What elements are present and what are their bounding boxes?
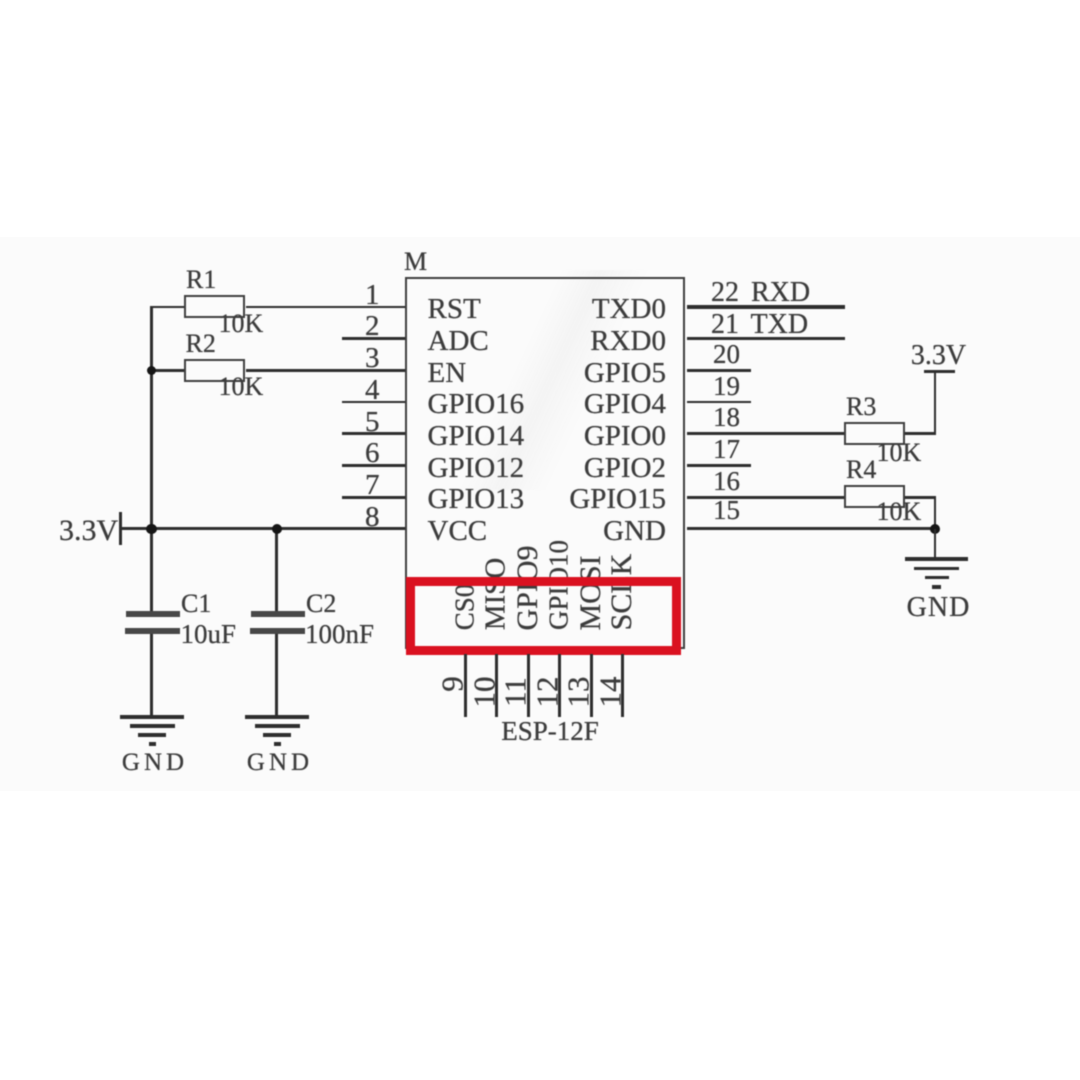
rotated pin number 13 [563, 676, 594, 707]
red highlight rectangle [406, 577, 681, 655]
pin number 8 [365, 503, 380, 532]
wire left vertical rail [150, 306, 153, 612]
pin number 1 [365, 281, 380, 310]
IC pin name GPIO16 [428, 390, 525, 419]
net label GND below C1 [122, 750, 188, 775]
IC pin name RST [428, 295, 481, 324]
junction node rail / C2 [272, 524, 282, 534]
capacitor C2 top plate [251, 611, 305, 617]
junction node rail / VCC row [146, 524, 157, 535]
capacitor C1 top plate [126, 611, 180, 617]
wire pin5 stub [342, 432, 405, 435]
wire R4 to GND riser [905, 496, 936, 499]
pin number 6 [365, 439, 380, 468]
pin number 19 [713, 373, 740, 400]
IC pin name GPIO2 [584, 454, 666, 483]
value 100nF of C2 [305, 621, 374, 648]
pin number 2 [365, 312, 380, 341]
wire bottom pin 13 [590, 654, 593, 717]
pin number 16 [713, 468, 740, 495]
value 10K of R4 [877, 499, 922, 525]
IC pin name GPIO4 [584, 390, 666, 419]
resistor R3 body [844, 422, 905, 446]
pin number 7 [365, 471, 380, 500]
value 10uF of C1 [181, 621, 237, 648]
capacitor C2 bottom plate [250, 628, 305, 634]
IC M body (ESP-12F module) [405, 277, 685, 649]
rotated pad label MISO [482, 558, 511, 631]
rotated pin number 10 [468, 676, 499, 707]
wire bottom pin 11 [527, 654, 530, 717]
resistor R2 body [184, 359, 245, 383]
IC pin name GPIO15 [569, 485, 666, 514]
rotated pad label GPIO9 [513, 545, 543, 630]
3.3V terminal tick [119, 512, 122, 545]
wire pin16 to R4 [687, 496, 845, 499]
rotated pad label GPIO10 [546, 540, 573, 630]
wire pin4 stub [342, 401, 405, 404]
ground symbol below C2 [232, 715, 322, 755]
resistor R4 body [844, 485, 905, 508]
IC pin name TXD0 [592, 295, 666, 324]
IC pin name GPIO5 [584, 359, 666, 388]
label R1 [186, 267, 216, 293]
ground symbol right [892, 557, 982, 597]
wire pin22 RXD [687, 305, 846, 308]
wire pin18 to R3 [687, 432, 845, 435]
wire 3.3V riser [934, 372, 937, 434]
net label GND below C2 [247, 750, 313, 775]
IC pin name GPIO0 [584, 422, 666, 451]
IC pin name GPIO13 [428, 485, 525, 514]
wire pin2 stub [342, 337, 405, 340]
label R4 [846, 457, 876, 483]
wire C1 to ground [150, 634, 153, 718]
pin number 20 [713, 341, 740, 368]
label R2 [186, 331, 216, 357]
IC pin name GPIO14 [428, 422, 525, 451]
net label 3.3V right [911, 342, 966, 370]
wire R2 left [150, 369, 184, 372]
wire pin6 stub [342, 464, 405, 467]
wire bottom pin 9 [464, 654, 467, 717]
capacitor C1 bottom plate [125, 628, 180, 634]
IC pin name ADC [428, 327, 489, 356]
wire bottom pin 12 [558, 654, 561, 717]
rotated pin number 14 [594, 676, 625, 707]
pin number 5 [365, 408, 380, 437]
junction node R2 / rail [147, 366, 156, 375]
wire pin1 to R1 [246, 306, 405, 309]
wire R3 to 3.3V riser [905, 432, 936, 435]
resistor R1 body [184, 295, 245, 319]
pin number 15 [713, 497, 740, 524]
pin number 21 and net TXD [711, 311, 808, 339]
wire GND riser lower [934, 529, 937, 558]
rotated pad label SCLK [607, 553, 637, 630]
junction node pin15 / GND riser [930, 524, 940, 534]
pin number 18 [713, 404, 740, 431]
pin number 3 [365, 344, 380, 373]
wire pin21 TXD [687, 337, 846, 340]
IC pin name VCC [428, 517, 488, 546]
power symbol 3.3V bar right [924, 370, 955, 373]
pin number 4 [365, 376, 380, 405]
pin number 17 [713, 436, 740, 463]
wire pin19 stub [687, 401, 751, 404]
IC reference designator M [404, 249, 427, 275]
IC pin name GPIO12 [428, 454, 525, 483]
wire bottom pin 14 [621, 654, 624, 717]
label R3 [846, 394, 876, 420]
rotated pin number 11 [500, 677, 531, 707]
wire C2 to ground [275, 634, 278, 718]
wire pin20 stub [687, 369, 751, 372]
wire C2 vertical [275, 529, 278, 612]
wire pin15 GND [687, 527, 937, 530]
IC pin name EN [428, 359, 467, 388]
part name ESP-12F [501, 718, 599, 745]
label C2 [306, 591, 336, 617]
net label GND right [907, 594, 971, 622]
label C1 [181, 591, 211, 617]
wire bottom pin 10 [495, 654, 498, 717]
pin number 22 and net RXD [711, 279, 810, 307]
wire VCC rail 3.3V to pin8 [120, 527, 405, 530]
IC pin name RXD0 [590, 327, 666, 356]
rotated pad label CS0 [451, 583, 478, 630]
rotated pad label MOSI [576, 555, 606, 630]
rotated pin number 9 [437, 676, 468, 692]
ground symbol below C1 [107, 715, 197, 755]
wire R1 left [150, 306, 184, 309]
rotated pin number 12 [531, 676, 562, 707]
IC pin name GND [603, 517, 666, 546]
value 10K of R2 [219, 374, 264, 400]
value 10K of R1 [219, 311, 264, 337]
wire pin3 to R2 [246, 369, 405, 372]
wire GND riser upper [934, 497, 937, 529]
wire pin17 stub [687, 464, 751, 467]
net label 3.3V left [59, 516, 118, 546]
value 10K of R3 [877, 440, 922, 466]
wire pin7 stub [342, 496, 405, 499]
